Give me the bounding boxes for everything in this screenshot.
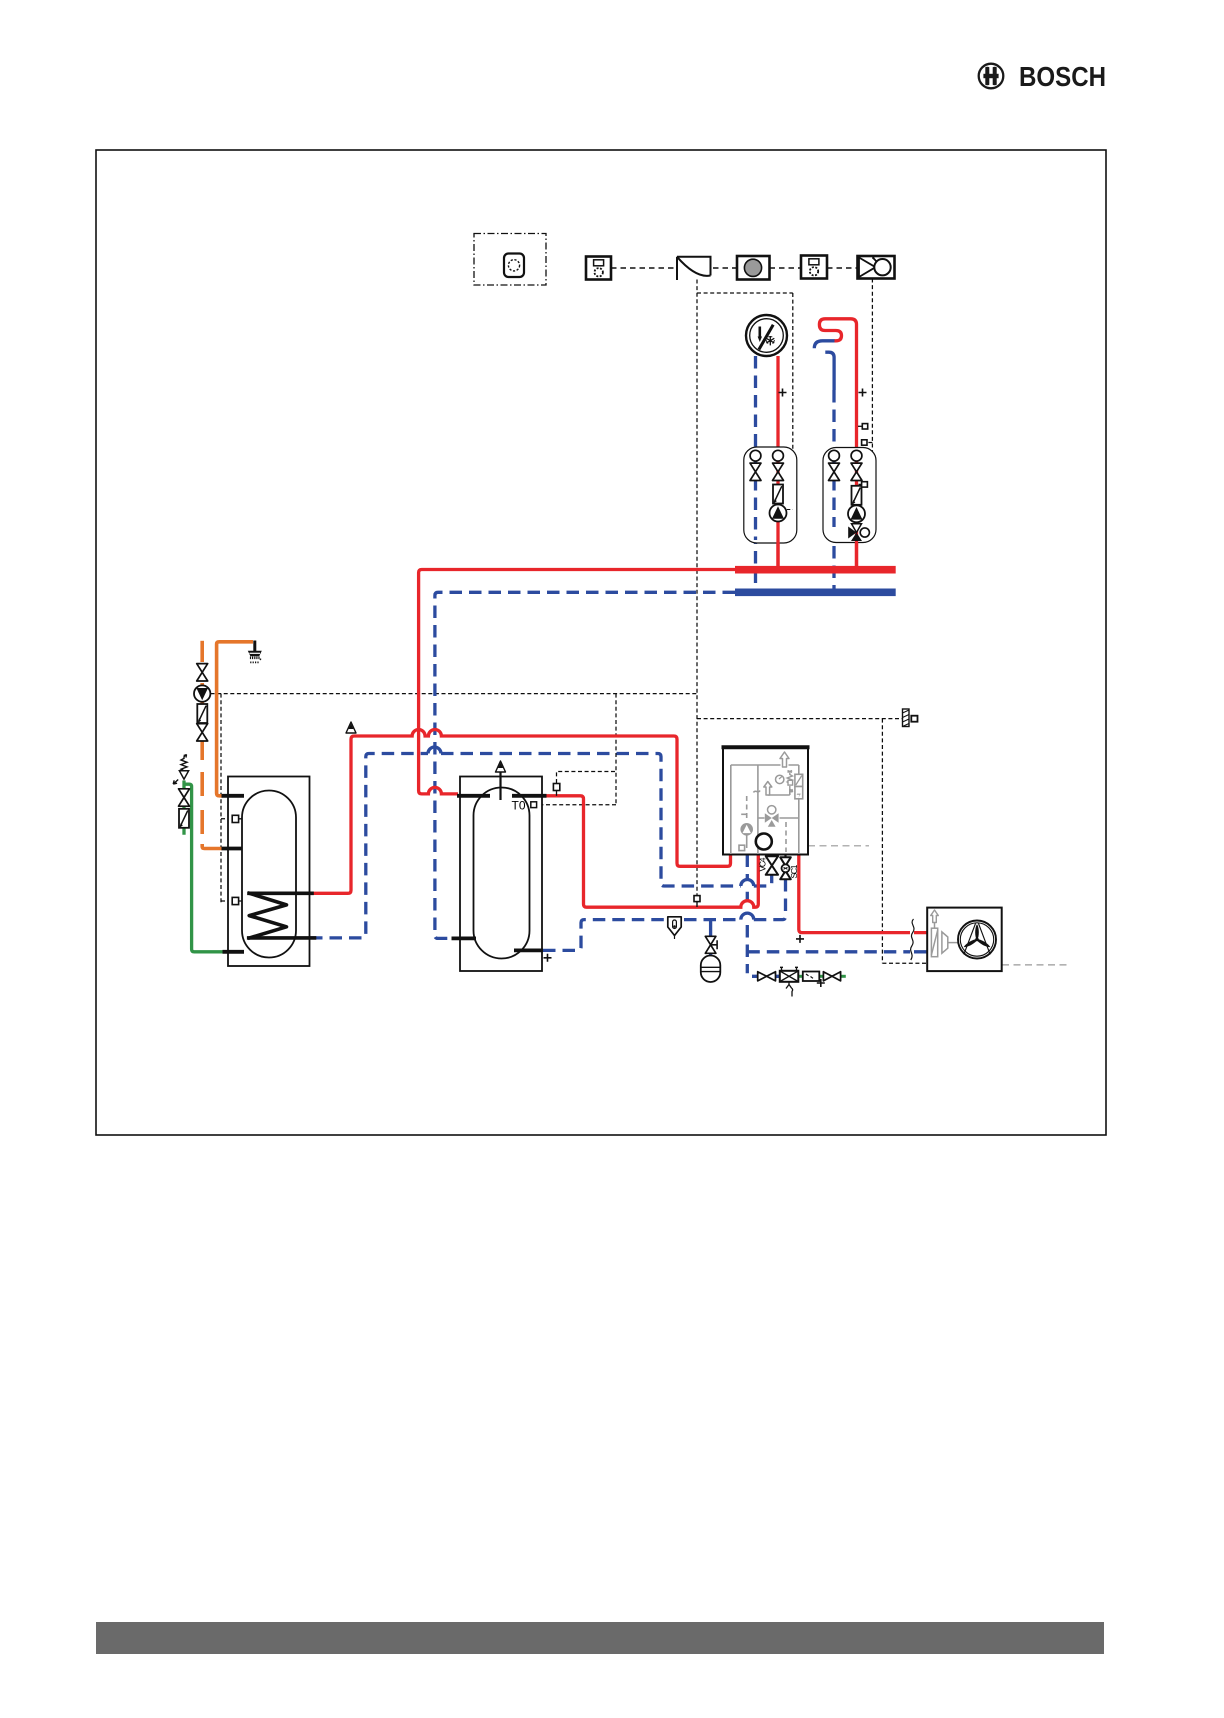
svg-text:T0: T0 bbox=[512, 799, 526, 813]
svg-text:SC1: SC1 bbox=[789, 864, 799, 878]
svg-text:BOSCH: BOSCH bbox=[1019, 61, 1106, 92]
svg-text:VC4: VC4 bbox=[758, 857, 768, 871]
